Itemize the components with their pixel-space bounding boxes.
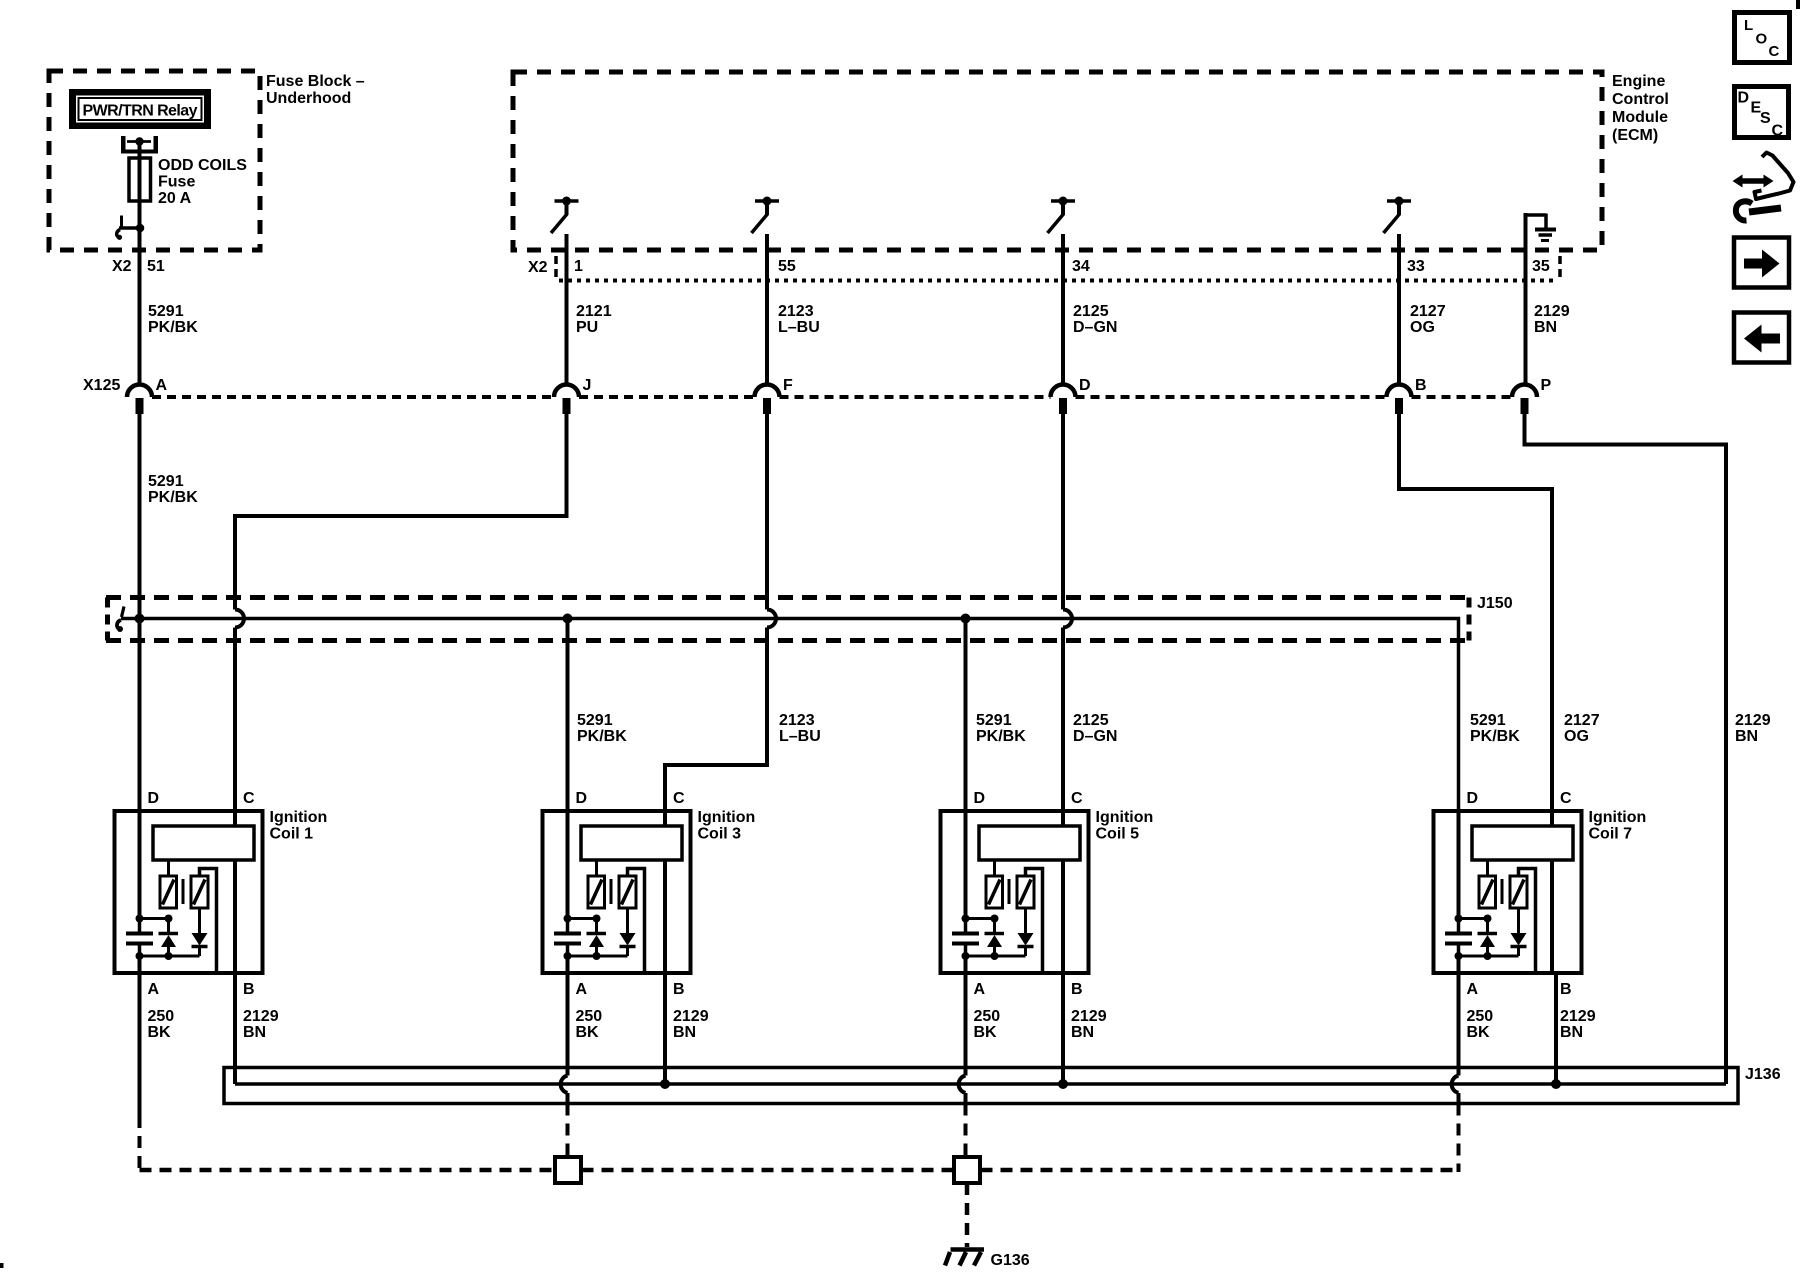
coil 3 zener diode D1: [587, 919, 607, 957]
svg-text:1: 1: [574, 258, 583, 275]
wire 2129 BN X125-P jog right and down to bus J136: [1525, 414, 1727, 1084]
svg-text:PK/BK: PK/BK: [148, 489, 198, 506]
wire 250 BK coil5 A down through bus with hop: [959, 973, 966, 1158]
wire 250 BK coil1 A down (solid then dashed): [138, 973, 142, 1172]
svg-text:33: 33: [1407, 258, 1425, 275]
connector X125 terminal D: [1051, 377, 1091, 414]
coil 1 pin D wire inside: [138, 811, 142, 919]
coil 1 core bar: [182, 879, 185, 904]
svg-text:J150: J150: [1477, 595, 1513, 612]
fuse output terminal symbol: [117, 216, 145, 240]
svg-text:Ignition: Ignition: [270, 809, 328, 826]
wire 2129 BN ECM pin35 to X125-P: [1524, 213, 1528, 385]
coil 3 capacitor: [554, 919, 581, 957]
svg-text:BN: BN: [243, 1024, 266, 1041]
svg-text:20 A: 20 A: [158, 190, 192, 207]
coil 3 bottom wire labels 250 BK / 2129 BN: [576, 1008, 709, 1041]
svg-text:34: 34: [1072, 258, 1090, 275]
splice junction dot at coil3 D: [563, 614, 573, 624]
coil 3 secondary winding W2: [619, 869, 645, 974]
ignition coil 1 box: [115, 811, 263, 973]
coil 7 junction row bottom: [1455, 952, 1519, 960]
coil 5 core bar: [1008, 879, 1011, 904]
svg-text:OG: OG: [1564, 728, 1589, 745]
svg-text:BK: BK: [148, 1024, 172, 1041]
svg-text:C: C: [1769, 43, 1780, 60]
wire 2129 BN coil1 B into bus J136: [233, 973, 237, 1084]
svg-text:A: A: [156, 377, 168, 394]
splice junction dot at coil5 D: [961, 614, 971, 624]
wire 5291 PK/BK X125-A down to splice J150 and coil1 D: [138, 414, 142, 811]
svg-text:Underhood: Underhood: [266, 90, 351, 107]
coil 3 pin A wire to box edge: [566, 956, 570, 973]
coil 1 bottom wire labels 250 BK / 2129 BN: [148, 1008, 279, 1041]
svg-text:PK/BK: PK/BK: [1470, 728, 1520, 745]
svg-text:A: A: [1467, 981, 1479, 998]
svg-text:G136: G136: [991, 1252, 1030, 1269]
coil 5 secondary winding W2: [1017, 869, 1043, 974]
svg-text:P: P: [1541, 377, 1552, 394]
svg-text:D: D: [1079, 377, 1091, 394]
coil 1 diode D2: [192, 908, 208, 956]
ECM driver output pin 33: [1384, 197, 1412, 234]
svg-text:250: 250: [1467, 1008, 1494, 1025]
coil 5 capacitor: [952, 919, 979, 957]
svg-text:S: S: [1760, 110, 1771, 127]
label J150: [1477, 595, 1513, 612]
X125 dashed harness line: [152, 395, 1512, 399]
label: Ignition Coil 7: [1589, 809, 1647, 843]
wire 5291 splice to coil5 D: [964, 619, 968, 812]
svg-text:D–GN: D–GN: [1073, 728, 1117, 745]
coil 3 module block: [581, 826, 682, 860]
svg-text:PK/BK: PK/BK: [148, 319, 198, 336]
svg-text:L–BU: L–BU: [779, 728, 821, 745]
splice J150 bus line with right end down to coil7 D: [121, 619, 1459, 812]
svg-text:OG: OG: [1410, 319, 1435, 336]
svg-text:5291: 5291: [577, 712, 613, 729]
svg-text:55: 55: [778, 258, 796, 275]
svg-text:BK: BK: [576, 1024, 600, 1041]
label G136: [991, 1252, 1030, 1269]
ECM driver output pin 34: [1048, 197, 1076, 234]
coil 5 zener diode D1: [985, 919, 1005, 957]
svg-text:Ignition: Ignition: [698, 809, 756, 826]
ECM internal ground pin 35: [1526, 214, 1557, 241]
coil 7 core bar: [1501, 879, 1504, 904]
svg-text:2123: 2123: [779, 712, 815, 729]
coil 3 primary winding W1: [588, 860, 605, 908]
wire 5291 splice to coil3 D: [566, 619, 570, 812]
coil 5 junction row bottom: [962, 952, 1026, 960]
svg-text:X2: X2: [112, 258, 132, 275]
svg-text:D: D: [1467, 790, 1479, 807]
svg-text:PU: PU: [576, 319, 598, 336]
sidebar forward arrow button: [1734, 238, 1789, 288]
coil 7 diode D2: [1511, 908, 1527, 956]
label wire 5291 PK/BK middle left: [148, 473, 198, 506]
svg-text:BK: BK: [974, 1024, 998, 1041]
svg-text:2129: 2129: [1560, 1008, 1596, 1025]
coil 5 pin letters: [974, 790, 1084, 998]
coil 7 primary winding W1: [1479, 860, 1496, 908]
ECM pin number labels: [574, 258, 1550, 275]
svg-text:A: A: [974, 981, 986, 998]
dashed wire square to ground G136: [965, 1183, 970, 1247]
svg-text:5291: 5291: [1470, 712, 1506, 729]
coil 1 capacitor: [126, 919, 153, 957]
svg-text:250: 250: [576, 1008, 603, 1025]
svg-text:2127: 2127: [1410, 303, 1446, 320]
svg-text:51: 51: [147, 258, 165, 275]
label X2 at ECM connector: [528, 259, 548, 276]
svg-text:2121: 2121: [576, 303, 612, 320]
svg-text:C: C: [1560, 790, 1572, 807]
svg-text:BN: BN: [1735, 728, 1758, 745]
svg-text:Ignition: Ignition: [1589, 809, 1647, 826]
splice left end terminal hook: [117, 607, 124, 633]
connector X125 label: [83, 377, 120, 394]
coil 7 pin C wire through module: [1550, 811, 1554, 973]
svg-text:ODD COILS: ODD COILS: [158, 157, 247, 174]
coil 5 diode D2: [1018, 908, 1034, 956]
svg-text:2125: 2125: [1073, 303, 1109, 320]
ECM dashed box: [513, 72, 1602, 250]
svg-text:B: B: [1415, 377, 1427, 394]
coil 3 junction row bottom: [564, 952, 628, 960]
svg-text:2127: 2127: [1564, 712, 1600, 729]
splice pack J136 outline: [224, 1068, 1738, 1104]
coil 7 bottom wire labels 250 BK / 2129 BN: [1467, 1008, 1596, 1041]
coil 5 pin C wire through module: [1061, 811, 1065, 973]
coil 5 primary winding W1: [986, 860, 1003, 908]
coil 1 pin letters: [148, 790, 256, 998]
wire 250 BK coil7 A down through bus with hop: [1452, 973, 1459, 1172]
svg-text:D: D: [576, 790, 588, 807]
wire 2129 BN coil7 B to bus junction: [1551, 973, 1561, 1089]
svg-text:Module: Module: [1612, 109, 1668, 126]
svg-text:BN: BN: [1071, 1024, 1094, 1041]
J136 internal bus line: [235, 1082, 1726, 1086]
connector X125 terminal F: [755, 377, 794, 414]
wire 2129 BN coil5 B to bus junction: [1058, 973, 1068, 1089]
coil 7 pin A wire to box edge: [1457, 956, 1461, 973]
svg-text:J136: J136: [1745, 1066, 1781, 1083]
svg-text:5291: 5291: [148, 473, 184, 490]
svg-text:2129: 2129: [243, 1008, 279, 1025]
sidebar tools/arrows icon: [1733, 153, 1794, 221]
svg-text:B: B: [1071, 981, 1083, 998]
svg-text:Coil 3: Coil 3: [698, 826, 742, 843]
svg-text:D: D: [1738, 90, 1750, 107]
label: Engine Control Module (ECM): [1612, 73, 1669, 144]
wire 5291 fuse to connector X125-A: [138, 228, 142, 385]
svg-text:Coil 5: Coil 5: [1096, 826, 1140, 843]
coil 1 pin C wire through module: [233, 811, 237, 973]
svg-text:PWR/TRN Relay: PWR/TRN Relay: [83, 103, 198, 120]
coil 1 module block: [153, 826, 254, 860]
svg-text:250: 250: [148, 1008, 175, 1025]
svg-text:Coil 7: Coil 7: [1589, 826, 1633, 843]
wire 2129 BN coil3 B to bus junction: [660, 973, 670, 1089]
wire 250 BK coil3 A down through bus with hop: [561, 973, 568, 1158]
coil 3 pin letters: [576, 790, 686, 998]
ECM driver output pin 1: [551, 197, 579, 234]
ground connector square right: [954, 1157, 980, 1183]
splice junction dot at 5291 coil1: [135, 614, 145, 624]
splice J150 dashed band: [106, 598, 1471, 641]
wire 2123 L-BU X125-F down, hop over splice, jog to coil3 C: [665, 414, 776, 811]
svg-text:5291: 5291: [976, 712, 1012, 729]
label pin X2 51 at fuse block: [112, 258, 165, 275]
coil 1 zener diode D1: [159, 919, 179, 957]
svg-text:X2: X2: [528, 259, 548, 276]
svg-text:2125: 2125: [1073, 712, 1109, 729]
svg-text:A: A: [148, 981, 160, 998]
coil 1 junction row top: [136, 915, 173, 923]
coil 5 bottom wire labels 250 BK / 2129 BN: [974, 1008, 1107, 1041]
page speck top right: [1796, 0, 1800, 9]
wire 2127 OG ECM pin33 to X125-B: [1397, 234, 1401, 385]
svg-text:C: C: [243, 790, 255, 807]
svg-text:L–BU: L–BU: [778, 319, 820, 336]
svg-text:L: L: [1744, 17, 1753, 34]
label wire 5291 PK/BK upper: [148, 303, 198, 336]
label: Ignition Coil 5: [1096, 809, 1154, 843]
coil 5 module block: [979, 826, 1080, 860]
ground symbol G136: [945, 1250, 984, 1266]
svg-text:BK: BK: [1467, 1024, 1491, 1041]
svg-text:BN: BN: [1560, 1024, 1583, 1041]
coil 1 primary winding W1: [160, 860, 177, 908]
svg-text:A: A: [576, 981, 588, 998]
svg-text:C: C: [1071, 790, 1083, 807]
relay PWR/TRN Relay: [69, 89, 211, 129]
wire relay to fuse: [138, 142, 142, 229]
label J136: [1745, 1066, 1781, 1083]
coil 5 pin A wire to box edge: [964, 956, 968, 973]
connector X125 terminal B: [1387, 377, 1427, 414]
coil 7 module block: [1472, 826, 1573, 860]
coil 5 pin D wire inside: [964, 811, 968, 919]
svg-text:D: D: [974, 790, 986, 807]
sidebar LOC button: [1735, 13, 1790, 63]
sidebar DESC button: [1735, 87, 1789, 140]
svg-text:F: F: [783, 377, 793, 394]
svg-text:O: O: [1756, 31, 1768, 48]
svg-text:2129: 2129: [1071, 1008, 1107, 1025]
dashed ground distribution line: [140, 1168, 1459, 1173]
label: Fuse Block - Underhood: [266, 73, 365, 107]
svg-text:PK/BK: PK/BK: [976, 728, 1026, 745]
page speck bottom left: [0, 1263, 4, 1268]
relay output terminal cup: [121, 136, 158, 154]
wire 2121 PU X125-J jog to coil1 C with hop over splice: [235, 414, 567, 811]
coil 7 pin D wire inside: [1457, 811, 1461, 919]
ignition coil 7 box: [1434, 811, 1582, 973]
middle wire color labels: [577, 712, 1771, 745]
coil 7 pin letters: [1467, 790, 1573, 998]
svg-text:Engine: Engine: [1612, 73, 1665, 90]
ground connector square left: [555, 1157, 581, 1183]
svg-text:Coil 1: Coil 1: [270, 826, 314, 843]
coil 1 secondary winding W2: [191, 869, 217, 974]
svg-text:2129: 2129: [1534, 303, 1570, 320]
wire 2123 L-BU ECM pin55 to X125-F: [765, 234, 769, 385]
svg-text:C: C: [1772, 123, 1784, 140]
connector X125 terminal P: [1512, 377, 1552, 414]
svg-text:250: 250: [974, 1008, 1001, 1025]
coil 1 junction row bottom: [136, 952, 200, 960]
svg-text:PK/BK: PK/BK: [577, 728, 627, 745]
wire 2127 OG X125-B jog to coil7 C: [1399, 414, 1552, 811]
wire 2125 D-GN ECM pin34 to X125-D: [1061, 234, 1065, 385]
svg-text:D: D: [148, 790, 160, 807]
svg-text:2129: 2129: [1735, 712, 1771, 729]
svg-text:X125: X125: [83, 377, 120, 394]
top wire color labels: [576, 303, 1570, 336]
coil 7 capacitor: [1445, 919, 1472, 957]
svg-text:BN: BN: [673, 1024, 696, 1041]
coil 3 pin D wire inside: [566, 811, 570, 919]
label: ODD COILS Fuse 20 A: [158, 157, 247, 207]
label: Ignition Coil 1: [270, 809, 328, 843]
ECM X2 connector dotted line: [556, 256, 1560, 281]
svg-text:2129: 2129: [673, 1008, 709, 1025]
ECM driver output pin 55: [752, 197, 780, 234]
coil 3 junction row top: [564, 915, 601, 923]
svg-text:2123: 2123: [778, 303, 814, 320]
connector X125 terminal J: [554, 377, 591, 414]
svg-text:B: B: [673, 981, 685, 998]
coil 3 diode D2: [620, 908, 636, 956]
coil 5 junction row top: [962, 915, 999, 923]
svg-text:Ignition: Ignition: [1096, 809, 1154, 826]
svg-text:Control: Control: [1612, 91, 1669, 108]
ignition coil 3 box: [543, 811, 691, 973]
svg-text:B: B: [1560, 981, 1572, 998]
sidebar back arrow button: [1734, 313, 1789, 363]
svg-text:J: J: [583, 377, 592, 394]
fuse block underhood dashed box: [49, 71, 260, 250]
svg-text:D–GN: D–GN: [1073, 319, 1117, 336]
svg-text:B: B: [243, 981, 255, 998]
label: Ignition Coil 3: [698, 809, 756, 843]
svg-text:(ECM): (ECM): [1612, 127, 1658, 144]
ignition coil 5 box: [941, 811, 1089, 973]
svg-text:5291: 5291: [148, 303, 184, 320]
connector X125 terminal A: [127, 377, 168, 414]
svg-text:C: C: [673, 790, 685, 807]
svg-text:Fuse Block –: Fuse Block –: [266, 73, 365, 90]
coil 7 junction row top: [1455, 915, 1492, 923]
fuse ODD COILS 20A: [129, 158, 151, 201]
coil 7 secondary winding W2: [1510, 869, 1536, 974]
coil 7 zener diode D1: [1478, 919, 1498, 957]
svg-text:BN: BN: [1534, 319, 1557, 336]
svg-text:35: 35: [1532, 258, 1550, 275]
wire 2125 D-GN X125-D down to coil5 C with hop over splice: [1063, 414, 1072, 811]
coil 1 pin A wire to box edge: [138, 956, 142, 973]
svg-text:Fuse: Fuse: [158, 174, 195, 191]
coil 3 pin C wire through module: [663, 811, 667, 973]
wire 2121 PU ECM pin1 to X125-J: [565, 234, 569, 385]
coil 3 core bar: [610, 879, 613, 904]
